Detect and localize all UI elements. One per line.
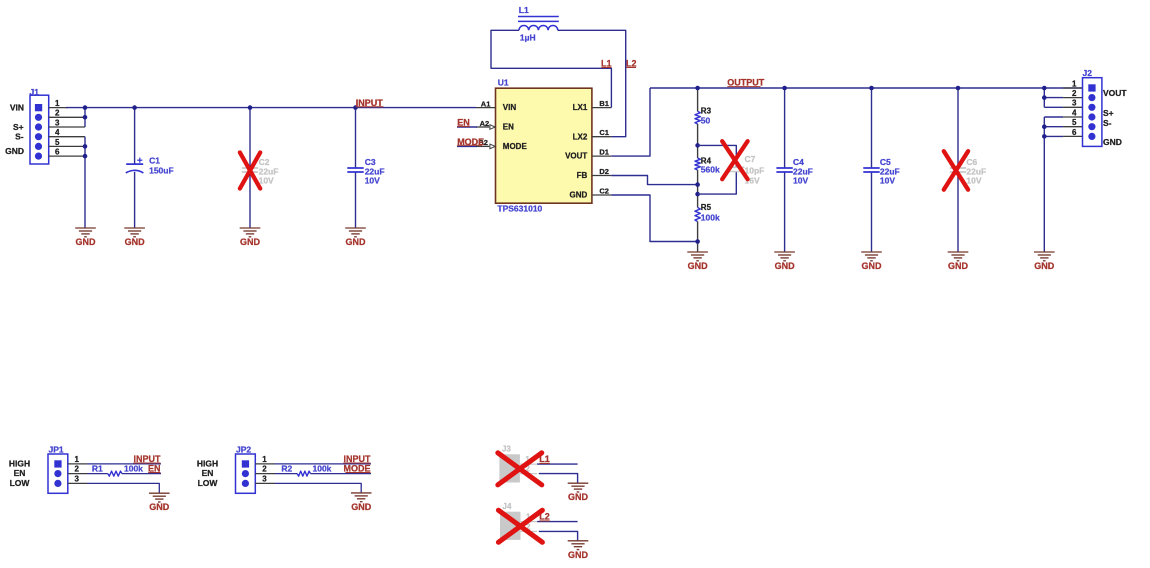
svg-text:GND: GND bbox=[125, 237, 146, 247]
resistor R1 100k row2 bbox=[68, 463, 161, 476]
JP2 left labels bbox=[197, 459, 219, 489]
ground GND under J1 bbox=[75, 227, 96, 229]
capacitor C5 22uF bbox=[863, 88, 899, 252]
svg-text:C1: C1 bbox=[599, 128, 609, 137]
svg-text:1: 1 bbox=[1072, 79, 1077, 88]
net label MODE at JP2 row2 bbox=[344, 463, 371, 473]
svg-text:C1: C1 bbox=[149, 156, 160, 166]
svg-text:GND: GND bbox=[5, 146, 24, 156]
capacitor C4 22uF bbox=[776, 88, 812, 252]
connector JP1 bbox=[48, 444, 68, 493]
svg-text:6: 6 bbox=[1072, 128, 1077, 137]
svg-text:VIN: VIN bbox=[10, 102, 24, 112]
svg-text:A1: A1 bbox=[481, 99, 491, 108]
JP1 pin numbers bbox=[75, 455, 80, 484]
svg-text:LX2: LX2 bbox=[573, 132, 588, 141]
svg-text:3: 3 bbox=[262, 474, 267, 483]
svg-text:C6: C6 bbox=[966, 157, 977, 167]
ground GND at J4 bbox=[568, 540, 589, 542]
svg-text:LOW: LOW bbox=[198, 478, 219, 488]
svg-text:J2: J2 bbox=[1083, 68, 1093, 78]
ground GND under C1 bbox=[124, 227, 145, 229]
svg-text:10V: 10V bbox=[259, 176, 274, 186]
capacitor C2 22uF DNP greyed bbox=[242, 108, 279, 228]
svg-text:C5: C5 bbox=[880, 157, 891, 167]
svg-text:LOW: LOW bbox=[10, 478, 31, 488]
svg-text:VOUT: VOUT bbox=[1103, 88, 1127, 98]
net label MODE with wire bbox=[457, 137, 484, 147]
wire J1 pins 4-6 gnd stub bbox=[84, 137, 86, 228]
svg-text:GND: GND bbox=[351, 502, 372, 512]
wire between R4 and R5 bbox=[697, 170, 699, 208]
connector J1 bbox=[30, 87, 49, 164]
J1 left side labels VIN S+ S- GND bbox=[5, 102, 24, 155]
op-amp U1 TPS631010 body bbox=[496, 78, 592, 214]
wire JP2 row1 to INPUT bbox=[255, 463, 274, 465]
svg-text:100k: 100k bbox=[313, 463, 332, 473]
ground GND under C3 bbox=[345, 227, 366, 229]
wire L2 net loop right bbox=[558, 30, 626, 136]
capacitor C1 150uF polarized bbox=[126, 108, 174, 228]
svg-text:GND: GND bbox=[76, 237, 97, 247]
svg-text:2: 2 bbox=[262, 465, 267, 474]
svg-text:1: 1 bbox=[55, 99, 60, 108]
resistor R3 50 bbox=[695, 88, 712, 125]
svg-text:10pF: 10pF bbox=[745, 165, 765, 175]
net label L2 at J4 bbox=[539, 512, 550, 522]
capacitor C3 22uF bbox=[347, 108, 384, 228]
wire J2 pins 2-3 stub bbox=[1043, 88, 1045, 107]
net label INPUT at JP2 bbox=[343, 454, 371, 464]
svg-text:GND: GND bbox=[775, 261, 796, 271]
svg-text:OUTPUT: OUTPUT bbox=[727, 77, 765, 87]
wire J2 pin rows bbox=[1044, 98, 1082, 137]
red X over C6 bbox=[944, 151, 968, 190]
svg-text:10V: 10V bbox=[365, 176, 380, 186]
svg-text:10V: 10V bbox=[880, 175, 895, 185]
junction dots divider bbox=[695, 86, 700, 91]
svg-text:VOUT: VOUT bbox=[565, 152, 587, 161]
svg-text:B1: B1 bbox=[599, 99, 609, 108]
ground GND under C4 bbox=[774, 251, 795, 253]
svg-text:2: 2 bbox=[55, 109, 60, 118]
svg-text:C7: C7 bbox=[745, 154, 756, 164]
svg-text:MODE: MODE bbox=[503, 142, 528, 151]
net label OUTPUT bbox=[727, 77, 765, 87]
svg-text:5: 5 bbox=[55, 138, 60, 147]
svg-text:INPUT: INPUT bbox=[344, 454, 372, 464]
svg-text:EN: EN bbox=[148, 463, 161, 473]
svg-text:FB: FB bbox=[577, 171, 588, 180]
JP1 left labels bbox=[9, 459, 31, 489]
wire JP2 row3 to ground bbox=[255, 482, 274, 484]
svg-text:GND: GND bbox=[568, 492, 589, 502]
ground GND at JP2 bbox=[351, 492, 372, 494]
wire IC GND pin to ground bbox=[611, 195, 697, 242]
svg-text:JP1: JP1 bbox=[49, 444, 64, 454]
wire J2 pins 4-6 gnd stub bbox=[1043, 117, 1045, 252]
svg-text:EN: EN bbox=[202, 468, 214, 478]
svg-text:3: 3 bbox=[55, 118, 60, 127]
svg-text:50: 50 bbox=[701, 115, 711, 125]
svg-text:EN: EN bbox=[14, 468, 26, 478]
wire INPUT net main horizontal bbox=[66, 107, 476, 109]
red X over C7 bbox=[722, 141, 747, 179]
svg-text:GND: GND bbox=[568, 550, 589, 560]
svg-text:6: 6 bbox=[55, 148, 60, 157]
svg-text:150uF: 150uF bbox=[149, 166, 174, 176]
svg-text:D2: D2 bbox=[599, 167, 609, 176]
svg-text:GND: GND bbox=[240, 237, 261, 247]
J2 right side labels bbox=[1103, 88, 1127, 147]
svg-text:MODE: MODE bbox=[344, 463, 371, 473]
net label L2 bbox=[626, 58, 637, 68]
wire J1 pins 2-3 stub bbox=[84, 108, 86, 127]
net label EN at JP1 row2 bbox=[148, 463, 161, 473]
ground GND under C6 bbox=[948, 251, 969, 253]
resistor R5 100k bbox=[695, 203, 720, 222]
svg-text:GND: GND bbox=[1034, 261, 1055, 271]
wire between R3 and R4 bbox=[697, 124, 699, 158]
svg-text:L1: L1 bbox=[519, 5, 529, 15]
connector J3 DNP greyed bbox=[499, 445, 537, 483]
J1 pin leads bbox=[49, 108, 85, 157]
connector JP2 bbox=[236, 444, 256, 493]
wire OUTPUT net bbox=[650, 87, 1083, 89]
svg-text:4: 4 bbox=[55, 128, 60, 137]
U1 pin A2 lead with input arrow bbox=[476, 119, 495, 130]
wire J4 pin2 to ground bbox=[539, 531, 578, 540]
svg-text:R2: R2 bbox=[281, 463, 292, 473]
junction dots J1 bbox=[83, 105, 88, 110]
svg-text:GND: GND bbox=[149, 502, 170, 512]
svg-text:560k: 560k bbox=[701, 165, 720, 175]
ground GND at J3 bbox=[568, 482, 589, 484]
ground GND under J2 bbox=[1034, 251, 1055, 253]
svg-text:GND: GND bbox=[862, 261, 883, 271]
svg-text:2: 2 bbox=[75, 465, 80, 474]
svg-text:10V: 10V bbox=[966, 175, 981, 185]
svg-text:R3: R3 bbox=[701, 107, 712, 116]
svg-text:1: 1 bbox=[262, 455, 267, 464]
svg-text:J1: J1 bbox=[30, 87, 40, 97]
svg-text:GND: GND bbox=[346, 237, 367, 247]
svg-text:10V: 10V bbox=[793, 175, 808, 185]
net label INPUT at JP1 bbox=[133, 454, 161, 464]
svg-text:4: 4 bbox=[1072, 108, 1077, 117]
connector J2 bbox=[1083, 68, 1102, 146]
U1 right pin leads B1 C1 D1 D2 C2 bbox=[592, 99, 612, 195]
svg-text:D1: D1 bbox=[599, 148, 609, 157]
svg-text:TPS631010: TPS631010 bbox=[497, 204, 542, 214]
red X over J4 bbox=[498, 510, 542, 542]
resistor R2 100k row2 bbox=[255, 463, 371, 476]
svg-text:INPUT: INPUT bbox=[134, 454, 162, 464]
resistor R4 560k bbox=[695, 157, 720, 175]
svg-text:L1: L1 bbox=[601, 58, 612, 68]
svg-text:U1: U1 bbox=[498, 78, 509, 88]
svg-text:LX1: LX1 bbox=[573, 103, 588, 112]
svg-text:VIN: VIN bbox=[503, 103, 517, 112]
svg-text:C2: C2 bbox=[259, 157, 270, 167]
svg-text:JP2: JP2 bbox=[236, 444, 251, 454]
svg-text:L2: L2 bbox=[626, 58, 637, 68]
svg-text:R1: R1 bbox=[92, 463, 103, 473]
svg-text:GND: GND bbox=[948, 261, 969, 271]
svg-text:J3: J3 bbox=[502, 445, 511, 454]
svg-text:S-: S- bbox=[1103, 118, 1112, 128]
ground GND under C2 bbox=[240, 227, 261, 229]
svg-text:100k: 100k bbox=[124, 463, 143, 473]
svg-text:GND: GND bbox=[570, 191, 588, 200]
red X over J3 bbox=[498, 453, 542, 485]
svg-text:3: 3 bbox=[75, 474, 80, 483]
JP2 pin numbers bbox=[262, 455, 267, 484]
U1 pin B2 lead with input arrow bbox=[476, 138, 495, 149]
svg-text:A2: A2 bbox=[480, 119, 490, 128]
wire VOUT from D1 to OUTPUT bbox=[611, 88, 650, 156]
svg-text:C4: C4 bbox=[793, 157, 804, 167]
capacitor C7 10pF DNP greyed bbox=[698, 145, 765, 194]
wire J4 pin1 net L2 bbox=[537, 521, 578, 523]
inductor L1 1uH bbox=[518, 5, 559, 43]
svg-text:C3: C3 bbox=[365, 157, 376, 167]
wire L1 net loop left bbox=[491, 30, 611, 107]
ground GND under R5 bbox=[687, 251, 708, 253]
svg-text:2: 2 bbox=[1072, 89, 1077, 98]
svg-text:C2: C2 bbox=[599, 186, 609, 195]
svg-text:3: 3 bbox=[1072, 99, 1077, 108]
svg-text:1µH: 1µH bbox=[520, 33, 536, 43]
U1 pin names bbox=[503, 103, 588, 199]
net label INPUT bbox=[356, 98, 384, 108]
U1 pin A1 lead bbox=[476, 107, 496, 109]
wire JP1 row1 to INPUT bbox=[68, 463, 87, 465]
svg-text:GND: GND bbox=[688, 261, 709, 271]
svg-text:J4: J4 bbox=[503, 502, 512, 511]
ground GND under C5 bbox=[861, 251, 882, 253]
net label EN with wire bbox=[457, 117, 477, 127]
wire R5 to ground bbox=[697, 222, 699, 253]
svg-text:100k: 100k bbox=[701, 212, 720, 222]
net label L1 at J3 bbox=[539, 454, 550, 464]
svg-text:1: 1 bbox=[75, 455, 80, 464]
svg-text:GND: GND bbox=[1103, 137, 1122, 147]
wire JP1 row3 to ground bbox=[68, 482, 87, 484]
svg-text:EN: EN bbox=[503, 123, 514, 132]
J1 pin numbers 1-6 bbox=[55, 99, 60, 157]
red X over C2 bbox=[240, 153, 260, 189]
connector J4 DNP greyed bbox=[500, 502, 537, 540]
J2 pin numbers bbox=[1072, 79, 1077, 137]
ground GND at JP1 bbox=[149, 492, 170, 494]
wire FB from D2 to divider bbox=[611, 176, 697, 185]
wire J3 pin1 net L1 bbox=[537, 463, 578, 465]
junction dots J2 bbox=[1042, 86, 1047, 91]
wire J3 pin2 to ground bbox=[539, 474, 578, 484]
capacitor C6 22uF DNP greyed bbox=[950, 88, 986, 252]
wire J2 pin1 lead bbox=[1063, 87, 1082, 89]
svg-text:S+: S+ bbox=[1103, 108, 1114, 118]
svg-text:S-: S- bbox=[15, 131, 24, 141]
svg-text:5: 5 bbox=[1072, 118, 1077, 127]
svg-text:R5: R5 bbox=[701, 203, 712, 212]
net label L1 bbox=[601, 58, 612, 68]
